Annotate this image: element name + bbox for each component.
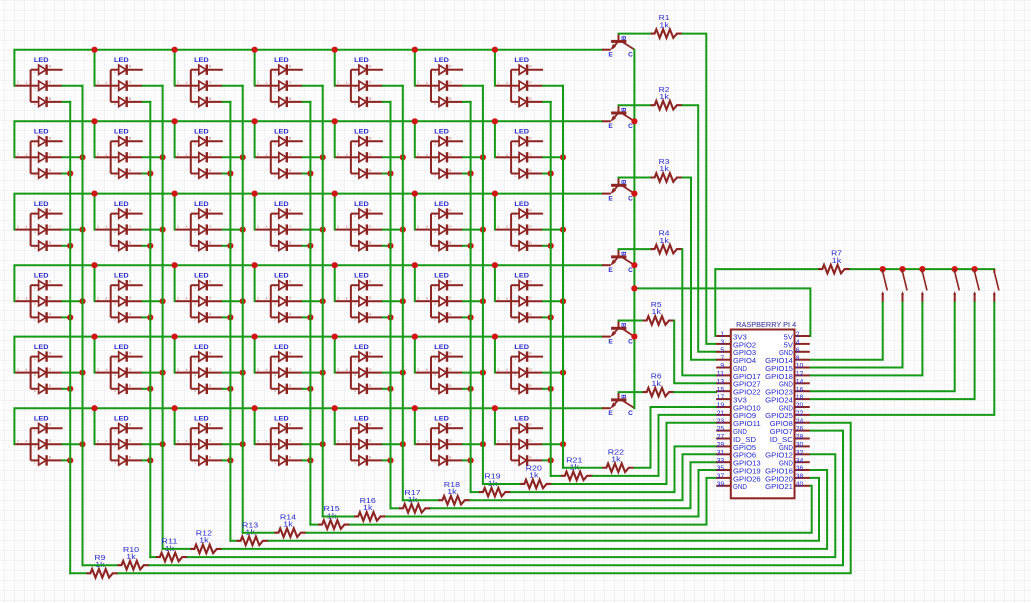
wire blue-cathode row6 col2 <box>143 459 151 461</box>
svg-text:R: R <box>289 136 292 140</box>
wire base of Q5 to R5 <box>619 320 643 322</box>
junction row bus 6 col4 <box>252 405 258 411</box>
resistor R14 1k <box>275 528 307 537</box>
svg-text:C: C <box>628 410 633 417</box>
pin 9 GND <box>716 367 731 369</box>
svg-text:5: 5 <box>114 389 116 393</box>
pin 31 GPIO6 <box>716 453 731 455</box>
wire switch S2 to header pin 10 <box>810 303 902 368</box>
svg-text:3: 3 <box>274 444 276 448</box>
svg-text:G: G <box>129 225 132 229</box>
wire R12 to header pin 36 <box>222 470 827 549</box>
svg-text:G: G <box>129 439 132 443</box>
transistor Q4 (PNP row driver, pins E B C) <box>602 249 634 274</box>
svg-text:R: R <box>129 352 132 356</box>
svg-text:1k: 1k <box>832 256 842 265</box>
wire column feed to R10 <box>83 564 118 566</box>
wire anode drop row3 col2 <box>94 194 96 230</box>
LED block row6 col7 (RGB LED, label LED) <box>496 416 543 466</box>
svg-text:R: R <box>449 280 452 284</box>
wire anode drop row1 col5 <box>334 50 336 86</box>
junction green column col1 row3 <box>79 227 85 233</box>
svg-text:5: 5 <box>274 389 276 393</box>
junction green column col4 row3 <box>320 227 326 233</box>
svg-text:1k: 1k <box>659 20 669 29</box>
svg-text:R: R <box>449 423 452 427</box>
wire green-cathode row5 col5 <box>383 372 403 374</box>
svg-text:R: R <box>129 65 132 69</box>
junction blue column col2 row5 <box>147 386 153 392</box>
svg-text:1: 1 <box>34 142 36 146</box>
LED block row4 col4 (RGB LED, label LED) <box>255 273 302 323</box>
pin 39 GND <box>716 485 731 487</box>
wire green-cathode row5 col2 <box>143 372 163 374</box>
wire green-cathode row2 col7 <box>543 156 563 158</box>
svg-text:R: R <box>449 65 452 69</box>
svg-text:1: 1 <box>194 214 196 218</box>
svg-text:R: R <box>49 423 52 427</box>
svg-text:5: 5 <box>514 102 516 106</box>
svg-text:1: 1 <box>194 285 196 289</box>
svg-text:1: 1 <box>114 285 116 289</box>
svg-text:3: 3 <box>114 373 116 377</box>
pin 30 GND <box>795 445 810 447</box>
svg-text:19: 19 <box>717 403 725 410</box>
svg-text:33: 33 <box>717 458 725 465</box>
svg-text:1k: 1k <box>283 519 293 528</box>
wire R13 to header pin 38 <box>269 478 819 541</box>
svg-text:R: R <box>49 136 52 140</box>
wire green-cathode row1 col1 <box>63 85 83 87</box>
junction row bus 1 col7 <box>492 47 498 53</box>
wire base of Q4 to R4 <box>619 248 651 250</box>
wire anode drop row6 col7 <box>494 408 496 444</box>
junction blue column col6 row3 <box>468 243 474 249</box>
svg-text:LED: LED <box>274 416 289 423</box>
wire anode drop row1 col7 <box>494 50 496 86</box>
svg-text:17: 17 <box>717 395 725 402</box>
pin 35 GPIO19 <box>716 469 731 471</box>
svg-text:1: 1 <box>434 285 436 289</box>
svg-text:R: R <box>49 65 52 69</box>
LED block row1 col6 (RGB LED, label LED) <box>416 57 463 107</box>
svg-text:R: R <box>529 65 532 69</box>
svg-text:G: G <box>369 81 372 85</box>
svg-text:3: 3 <box>514 230 516 234</box>
wire blue-cathode row2 col4 <box>303 173 311 175</box>
junction green column col5 row2 <box>400 154 406 160</box>
junction green column col7 row6 <box>560 441 566 447</box>
svg-text:1: 1 <box>34 214 36 218</box>
svg-text:LED: LED <box>274 273 289 280</box>
junction blue column col5 row6 <box>387 457 393 463</box>
wire anode drop row4 col4 <box>254 265 256 301</box>
svg-text:2: 2 <box>97 153 99 157</box>
svg-text:LED: LED <box>274 201 289 208</box>
pin 13 GPIO27 <box>716 382 731 384</box>
wire anode drop row3 col4 <box>254 194 256 230</box>
svg-text:G: G <box>209 368 212 372</box>
pin 12 GPIO18 <box>795 374 810 376</box>
junction row bus 1 col2 <box>91 47 97 53</box>
wire blue-cathode row6 col5 <box>383 459 391 461</box>
svg-text:G: G <box>449 225 452 229</box>
wire blue-cathode row4 col6 <box>463 316 471 318</box>
svg-text:5: 5 <box>354 246 356 250</box>
svg-text:3: 3 <box>34 230 36 234</box>
svg-text:R: R <box>449 352 452 356</box>
svg-text:3: 3 <box>514 158 516 162</box>
svg-text:5: 5 <box>114 318 116 322</box>
wire green column 3 vertical <box>242 86 244 533</box>
junction blue column col5 row4 <box>387 314 393 320</box>
resistor R13 1k <box>237 537 269 546</box>
wire blue-cathode row4 col2 <box>143 316 151 318</box>
svg-text:R: R <box>289 352 292 356</box>
svg-text:1: 1 <box>514 285 516 289</box>
wire row bus 6 (anode row net) <box>14 408 602 444</box>
svg-text:G: G <box>49 296 52 300</box>
junction row bus 2 col6 <box>412 118 418 124</box>
wire switch S6 to header pin 22 <box>810 303 994 415</box>
junction green column col1 row5 <box>79 370 85 376</box>
svg-text:E: E <box>608 52 613 59</box>
svg-text:5: 5 <box>194 461 196 465</box>
svg-text:R: R <box>209 65 212 69</box>
wire R16 to header pin 35 <box>386 470 716 517</box>
wire green-cathode row5 col3 <box>223 372 243 374</box>
junction blue column col1 row5 <box>67 386 73 392</box>
svg-text:LED: LED <box>354 57 369 64</box>
svg-text:G: G <box>129 152 132 156</box>
pin 28 ID_SC <box>795 438 810 440</box>
wire green column 1 vertical <box>82 86 84 566</box>
svg-text:30: 30 <box>796 442 804 449</box>
junction blue column col1 row3 <box>67 243 73 249</box>
svg-text:C: C <box>628 52 633 59</box>
svg-text:LED: LED <box>34 416 49 423</box>
junction collector rail Q3 <box>631 191 637 197</box>
svg-text:LED: LED <box>34 57 49 64</box>
wire blue column 3 vertical <box>229 102 231 541</box>
resistor R5 1k <box>643 316 675 325</box>
wire anode drop row2 col7 <box>494 121 496 157</box>
junction green column col6 row4 <box>480 298 486 304</box>
pin 19 GPIO10 <box>716 406 731 408</box>
junction row bus 2 col5 <box>332 118 338 124</box>
svg-text:R: R <box>529 423 532 427</box>
svg-text:5: 5 <box>514 318 516 322</box>
wire anode drop row3 col3 <box>174 194 176 230</box>
svg-text:2: 2 <box>257 225 259 229</box>
svg-text:5: 5 <box>514 246 516 250</box>
junction blue column col7 row3 <box>548 243 554 249</box>
svg-text:LED: LED <box>434 344 449 351</box>
svg-text:35: 35 <box>717 466 725 473</box>
junction blue column col4 row3 <box>307 243 313 249</box>
wire blue-cathode row4 col4 <box>303 316 311 318</box>
wire green-cathode row3 col6 <box>463 229 483 231</box>
svg-text:1: 1 <box>434 214 436 218</box>
wire anode drop row5 col3 <box>174 337 176 373</box>
svg-text:2: 2 <box>417 81 419 85</box>
junction green column col7 row5 <box>560 370 566 376</box>
svg-text:3: 3 <box>114 230 116 234</box>
svg-text:5: 5 <box>194 389 196 393</box>
IC U1 RASPBERRY PI 4 header <box>716 322 810 498</box>
svg-text:G: G <box>289 81 292 85</box>
transistor Q2 (PNP row driver, pins E B C) <box>602 105 634 130</box>
wire green-cathode row3 col7 <box>543 229 563 231</box>
junction collector rail Q4 <box>631 262 637 268</box>
svg-text:G: G <box>449 81 452 85</box>
svg-text:1: 1 <box>114 142 116 146</box>
wire row bus 3 (anode row net) <box>14 194 602 230</box>
LED block row5 col6 (RGB LED, label LED) <box>416 344 463 394</box>
svg-text:27: 27 <box>717 434 725 441</box>
junction green column col7 row4 <box>560 298 566 304</box>
junction green column col4 row4 <box>320 298 326 304</box>
svg-text:38: 38 <box>796 474 804 481</box>
wire anode drop row4 col6 <box>414 265 416 301</box>
svg-text:LED: LED <box>434 129 449 136</box>
svg-text:R: R <box>289 280 292 284</box>
junction blue column col2 row3 <box>147 243 153 249</box>
pin 1 3V3 <box>716 335 731 337</box>
svg-text:3: 3 <box>720 340 724 347</box>
svg-text:5: 5 <box>514 389 516 393</box>
pin 21 GPIO9 <box>716 414 731 416</box>
junction row bus 2 col3 <box>172 118 178 124</box>
svg-text:1: 1 <box>354 214 356 218</box>
svg-text:1: 1 <box>114 214 116 218</box>
LED block row1 col7 (RGB LED, label LED) <box>496 57 543 107</box>
svg-text:3: 3 <box>34 301 36 305</box>
svg-text:G: G <box>449 152 452 156</box>
wire green column 2 vertical <box>162 86 164 549</box>
pin 22 GPIO25 <box>795 414 810 416</box>
svg-text:R: R <box>369 352 372 356</box>
svg-text:3: 3 <box>514 86 516 90</box>
svg-text:LED: LED <box>514 344 529 351</box>
pin 18 GPIO24 <box>795 398 810 400</box>
wire switch S4 to header pin 16 <box>810 303 955 392</box>
junction green column col6 row6 <box>480 441 486 447</box>
svg-text:G: G <box>49 439 52 443</box>
junction blue column col4 row4 <box>307 314 313 320</box>
wire column feed to R9 <box>70 572 86 574</box>
svg-text:3: 3 <box>114 86 116 90</box>
svg-text:1: 1 <box>434 142 436 146</box>
junction green column col4 row6 <box>320 441 326 447</box>
junction green column col2 row6 <box>160 441 166 447</box>
wire blue-cathode row1 col5 <box>383 101 391 103</box>
wire green-cathode row1 col4 <box>303 85 323 87</box>
resistor R10 1k <box>118 561 150 570</box>
LED block row1 col4 (RGB LED, label LED) <box>255 57 302 107</box>
push switch S3 <box>921 269 927 303</box>
junction green column col4 row5 <box>320 370 326 376</box>
wire blue-cathode row5 col1 <box>63 388 71 390</box>
junction row bus 3 col4 <box>252 191 258 197</box>
wire R6 to header pin 15 <box>674 391 716 393</box>
svg-text:LED: LED <box>514 129 529 136</box>
svg-text:R: R <box>369 280 372 284</box>
junction blue column col6 row6 <box>468 457 474 463</box>
wire blue-cathode row1 col1 <box>63 101 71 103</box>
svg-text:G: G <box>209 225 212 229</box>
LED block row6 col6 (RGB LED, label LED) <box>416 416 463 466</box>
svg-text:2: 2 <box>497 439 499 443</box>
svg-text:G: G <box>369 152 372 156</box>
svg-text:2: 2 <box>337 296 339 300</box>
svg-text:3: 3 <box>274 373 276 377</box>
svg-text:1: 1 <box>514 70 516 74</box>
wire green-cathode row2 col1 <box>63 156 83 158</box>
svg-text:1: 1 <box>194 357 196 361</box>
wire green-cathode row6 col7 <box>543 443 563 445</box>
wire R22 to header pin 19 <box>634 407 716 468</box>
junction green column col3 row6 <box>240 441 246 447</box>
junction blue column col6 row4 <box>468 314 474 320</box>
wire green-cathode row3 col5 <box>383 229 403 231</box>
svg-text:G: G <box>289 225 292 229</box>
svg-text:C: C <box>628 267 633 274</box>
wire column feed to R15 <box>310 524 318 526</box>
LED block row3 col5 (RGB LED, label LED) <box>336 201 383 251</box>
junction row bus 4 col2 <box>91 262 97 268</box>
wire row bus 5 (anode row net) <box>14 337 602 373</box>
svg-text:R: R <box>529 352 532 356</box>
wire blue-cathode row3 col5 <box>383 245 391 247</box>
wire R17 to header pin 33 <box>431 462 716 508</box>
svg-text:14: 14 <box>796 379 804 386</box>
junction blue column col3 row3 <box>227 243 233 249</box>
transistor Q6 (PNP row driver, pins E B C) <box>602 392 634 417</box>
svg-text:G: G <box>369 368 372 372</box>
push switch S4 <box>953 269 959 303</box>
svg-text:3: 3 <box>34 444 36 448</box>
pin 25 GND <box>716 430 731 432</box>
svg-text:5: 5 <box>354 174 356 178</box>
junction collector rail branch <box>631 285 637 291</box>
svg-text:G: G <box>289 296 292 300</box>
wire blue-cathode row5 col4 <box>303 388 311 390</box>
svg-text:B: B <box>620 180 626 185</box>
svg-text:24: 24 <box>796 418 804 425</box>
wire green-cathode row2 col5 <box>383 156 403 158</box>
wire blue-cathode row6 col7 <box>543 459 551 461</box>
svg-text:5: 5 <box>114 461 116 465</box>
svg-text:LED: LED <box>434 201 449 208</box>
pin 16 GPIO23 <box>795 390 810 392</box>
svg-text:B: B <box>620 252 626 257</box>
wire R5 to header pin 13 <box>674 321 716 384</box>
svg-text:5: 5 <box>434 246 436 250</box>
svg-text:1: 1 <box>274 70 276 74</box>
wire anode drop row2 col2 <box>94 121 96 157</box>
wire anode drop row5 col2 <box>94 337 96 373</box>
svg-text:5: 5 <box>434 318 436 322</box>
svg-text:1k: 1k <box>447 487 457 496</box>
svg-text:2: 2 <box>257 81 259 85</box>
junction blue column col5 row5 <box>387 386 393 392</box>
wire blue column 1 vertical <box>69 102 71 573</box>
svg-text:3: 3 <box>274 86 276 90</box>
svg-text:1k: 1k <box>651 379 661 388</box>
resistor R7 1k <box>818 265 850 274</box>
svg-text:G: G <box>529 368 532 372</box>
junction row bus 6 col5 <box>332 405 338 411</box>
junction row bus 4 col4 <box>252 262 258 268</box>
svg-text:2: 2 <box>17 368 19 372</box>
wire switch S5 to header pin 18 <box>810 303 974 400</box>
resistor R6 1k <box>643 388 675 397</box>
svg-text:R: R <box>49 280 52 284</box>
svg-text:LED: LED <box>354 344 369 351</box>
junction row bus 5 col2 <box>91 334 97 340</box>
svg-text:2: 2 <box>97 368 99 372</box>
svg-text:5: 5 <box>434 102 436 106</box>
svg-text:1k: 1k <box>611 454 621 463</box>
svg-text:R: R <box>369 423 372 427</box>
wire blue-cathode row6 col4 <box>303 459 311 461</box>
svg-text:1: 1 <box>34 285 36 289</box>
pin 7 GPIO4 <box>716 359 731 361</box>
resistor R19 1k <box>479 488 511 497</box>
wire switch S3 to header pin 12 <box>810 303 922 376</box>
svg-text:2: 2 <box>337 153 339 157</box>
junction green column col5 row6 <box>400 441 406 447</box>
svg-text:2: 2 <box>257 439 259 443</box>
wire blue-cathode row1 col6 <box>463 101 471 103</box>
LED block row2 col2 (RGB LED, label LED) <box>95 129 142 179</box>
svg-text:R: R <box>129 280 132 284</box>
junction row bus 4 col5 <box>332 262 338 268</box>
svg-text:1: 1 <box>354 142 356 146</box>
svg-text:LED: LED <box>354 416 369 423</box>
junction blue column col4 row2 <box>307 170 313 176</box>
svg-text:2: 2 <box>177 439 179 443</box>
svg-text:G: G <box>289 152 292 156</box>
svg-text:R: R <box>129 136 132 140</box>
svg-text:R: R <box>529 280 532 284</box>
junction green column col7 row2 <box>560 154 566 160</box>
svg-text:R: R <box>209 352 212 356</box>
wire blue-cathode row2 col5 <box>383 173 391 175</box>
wire blue column 4 vertical <box>309 102 311 525</box>
svg-text:GND: GND <box>733 482 747 491</box>
svg-text:1k: 1k <box>651 307 661 316</box>
svg-text:1: 1 <box>354 70 356 74</box>
junction row bus 3 col6 <box>412 191 418 197</box>
svg-text:R: R <box>209 423 212 427</box>
pin 2 5V <box>795 335 810 337</box>
junction row bus 3 col3 <box>172 191 178 197</box>
svg-text:2: 2 <box>497 153 499 157</box>
wire green-cathode row4 col7 <box>543 300 563 302</box>
svg-text:G: G <box>529 439 532 443</box>
resistor R3 1k <box>651 173 683 182</box>
junction row bus 5 col7 <box>492 334 498 340</box>
pin 6 GND <box>795 351 810 353</box>
wire blue-cathode row1 col3 <box>223 101 231 103</box>
svg-text:LED: LED <box>114 201 129 208</box>
pin 24 GPIO8 <box>795 422 810 424</box>
pin 33 GPIO13 <box>716 461 731 463</box>
svg-text:3: 3 <box>194 86 196 90</box>
pin 29 GPIO5 <box>716 445 731 447</box>
